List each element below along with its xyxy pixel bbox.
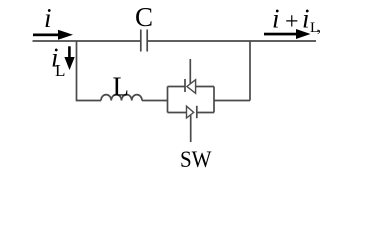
wire top-left segment (node i-in to capacitor)	[33, 40, 141, 42]
svg-text:,: ,	[317, 19, 321, 36]
current arrow i+iL	[264, 29, 311, 39]
svg-text:i: i	[272, 4, 280, 34]
svg-text:+: +	[285, 9, 299, 35]
thyristor V1 triangle	[187, 80, 196, 94]
capacitor C	[141, 30, 147, 52]
svg-text:L: L	[55, 61, 65, 80]
svg-text:L: L	[113, 72, 130, 102]
wire switch loop bottom branch left	[168, 112, 187, 114]
thyristor V1 top (pointing left) cathode bar	[184, 79, 186, 92]
wire top-right segment (capacitor to node i-out)	[148, 40, 316, 42]
current arrow iL (downward)	[64, 46, 74, 70]
gate wire thyristor V2	[190, 115, 192, 142]
svg-text:SW: SW	[180, 147, 212, 171]
wire switch loop bottom branch right	[197, 112, 214, 114]
wire switch loop left edge	[167, 87, 169, 113]
wire switch loop right edge	[213, 87, 215, 113]
wire left branch down from top wire	[77, 41, 102, 101]
svg-text:i: i	[302, 4, 310, 34]
svg-text:i: i	[44, 3, 52, 33]
wire inductor to switch	[142, 100, 168, 102]
svg-text:C: C	[135, 2, 153, 32]
wire switch loop top branch left	[168, 86, 186, 88]
gate wire thyristor V1	[189, 59, 191, 84]
inductor L	[101, 95, 142, 101]
wire switch loop top branch right	[196, 86, 214, 88]
thyristor V2 cathode bar	[196, 106, 198, 118]
thyristor V2 bottom (pointing right) triangle	[187, 106, 194, 118]
wire switch output to right branch	[214, 100, 250, 102]
current arrow i	[33, 30, 73, 40]
wire right branch up to top wire	[249, 41, 251, 101]
